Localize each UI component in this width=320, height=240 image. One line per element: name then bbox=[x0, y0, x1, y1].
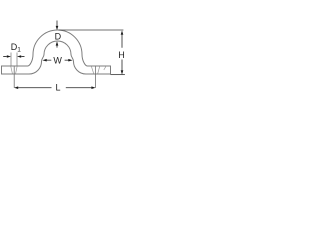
svg-text:D: D bbox=[55, 32, 62, 42]
svg-text:H: H bbox=[118, 50, 125, 60]
svg-text:W: W bbox=[53, 56, 62, 66]
svg-text:L: L bbox=[56, 83, 61, 93]
svg-text:D1: D1 bbox=[11, 42, 21, 54]
